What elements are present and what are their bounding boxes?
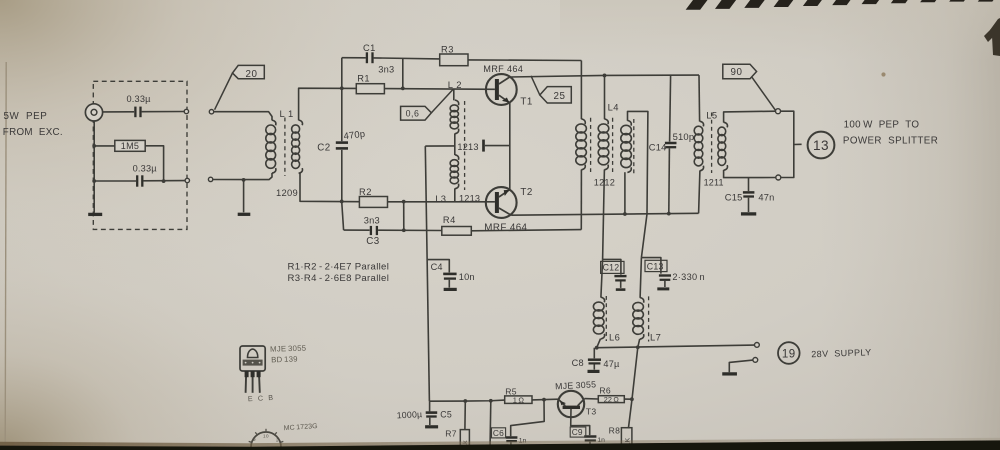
node dot bbox=[340, 86, 344, 90]
wire T3 to R6 bbox=[585, 398, 599, 400]
wire C1 to R3 bbox=[374, 58, 440, 59]
wire base line to L2 bbox=[453, 89, 455, 101]
resistor R1 bbox=[356, 73, 384, 93]
capacitor C2 bbox=[317, 128, 365, 154]
svg-text:C9: C9 bbox=[572, 427, 583, 437]
wire upper terminal to L1 bbox=[214, 112, 272, 121]
output terminal top bbox=[776, 109, 781, 114]
wire C-in to box edge bbox=[142, 111, 184, 113]
paper speck bbox=[881, 72, 885, 76]
label MRF464 bottom bbox=[484, 223, 527, 234]
label C6 value bbox=[519, 438, 527, 445]
svg-text:C5: C5 bbox=[440, 409, 452, 419]
capacitor C14 bbox=[665, 143, 677, 214]
svg-text:1211: 1211 bbox=[704, 178, 724, 188]
svg-text:T3: T3 bbox=[586, 407, 597, 417]
svg-text:R8: R8 bbox=[609, 425, 621, 435]
L5 secondary bbox=[718, 122, 728, 170]
svg-text:47µ: 47µ bbox=[603, 359, 620, 369]
label MJE3055 at T3 bbox=[555, 379, 597, 391]
svg-text:C14: C14 bbox=[649, 143, 667, 153]
L4 core a bbox=[590, 118, 592, 172]
wire C3 to R4 bbox=[378, 229, 442, 231]
flag 20 leader bbox=[215, 73, 233, 110]
winding c top bracket bbox=[628, 111, 648, 257]
svg-text:E C B: E C B bbox=[248, 393, 275, 403]
svg-text:C6: C6 bbox=[493, 428, 504, 438]
wire C3 line left bbox=[344, 229, 370, 231]
svg-text:C15: C15 bbox=[725, 193, 743, 203]
C8 stub bbox=[593, 348, 595, 359]
wire lower cap to terminal bbox=[143, 180, 184, 182]
label C13 box bbox=[645, 260, 667, 271]
label L3 bbox=[435, 193, 446, 204]
inductor L2 bbox=[450, 100, 459, 134]
svg-text:MRF 464: MRF 464 bbox=[483, 64, 523, 74]
capacitor C4 bbox=[443, 274, 457, 290]
label 10n bbox=[459, 272, 475, 282]
T3 base wire bbox=[571, 409, 590, 435]
svg-text:0.33µ: 0.33µ bbox=[127, 94, 152, 104]
svg-text:R2: R2 bbox=[359, 187, 372, 197]
left bus of input box bbox=[93, 121, 95, 213]
terminal lower bbox=[208, 177, 212, 181]
bypass plate bbox=[482, 140, 485, 152]
node dot bbox=[402, 228, 406, 232]
svg-text:C4: C4 bbox=[431, 262, 443, 272]
C7 feed wire bbox=[489, 401, 492, 450]
L4 winding a bbox=[576, 119, 587, 170]
supply return wire bbox=[729, 360, 753, 372]
transistor T2 (MRF464) bbox=[486, 187, 517, 218]
svg-text:1212: 1212 bbox=[594, 178, 615, 188]
ground stub wire bbox=[243, 180, 245, 212]
node dot bbox=[595, 346, 599, 350]
svg-text:0.33µ: 0.33µ bbox=[133, 163, 158, 173]
label C14 bbox=[649, 143, 667, 153]
svg-text:1213: 1213 bbox=[457, 142, 478, 152]
label L5 bbox=[706, 109, 717, 120]
resistor R2 bbox=[359, 187, 388, 208]
T1 emitter vertical bbox=[509, 103, 511, 189]
svg-text:R1: R1 bbox=[357, 73, 370, 83]
svg-text:R5: R5 bbox=[505, 386, 517, 396]
text POWER SPLITTER bbox=[843, 135, 938, 146]
wire to 1M5 bbox=[94, 145, 115, 147]
label MRF464 top bbox=[483, 64, 523, 74]
svg-text:0,6: 0,6 bbox=[406, 109, 420, 119]
bracket stub bbox=[794, 143, 802, 145]
flag 90 leader bbox=[752, 77, 776, 110]
node dot bbox=[402, 200, 406, 204]
svg-text:28V SUPPLY: 28V SUPPLY bbox=[811, 347, 872, 359]
supply terminal + bbox=[755, 343, 760, 348]
label C6 box bbox=[492, 428, 506, 438]
node dot bbox=[603, 74, 607, 78]
coax input connector J1 bbox=[85, 104, 102, 121]
svg-text:R3: R3 bbox=[441, 44, 454, 54]
svg-text:47n: 47n bbox=[758, 193, 774, 203]
note R1R2 parallel bbox=[288, 261, 390, 272]
L4 core b bbox=[612, 118, 614, 172]
svg-text:C1: C1 bbox=[363, 43, 376, 53]
wire 1M5 right + down bbox=[145, 146, 163, 181]
resistor R5 bbox=[505, 386, 532, 404]
capacitor C6 bbox=[506, 438, 518, 450]
capacitor C12 bbox=[614, 276, 626, 290]
svg-text:20: 20 bbox=[246, 69, 258, 80]
svg-text:R7: R7 bbox=[445, 429, 457, 439]
label R8 bbox=[609, 425, 621, 435]
capacitor 0.33u (bottom) bbox=[133, 163, 158, 186]
node dot bbox=[489, 399, 493, 403]
terminal (box top right) bbox=[184, 109, 188, 113]
circled 13 bbox=[808, 132, 835, 159]
wire to C12 bbox=[603, 259, 621, 274]
wire R4 to feedback winding bbox=[471, 230, 581, 231]
dashed enclosure box bbox=[93, 81, 187, 229]
svg-text:C13: C13 bbox=[647, 261, 664, 271]
node dot bbox=[92, 144, 96, 148]
package drawing MC1723 (TO-99) bbox=[249, 429, 284, 450]
L4 winding b riser bbox=[604, 75, 606, 119]
wire R5 to T3 bbox=[532, 398, 558, 401]
svg-text:1209: 1209 bbox=[276, 187, 298, 198]
output bracket bbox=[781, 111, 794, 177]
center tap wire bbox=[425, 145, 455, 147]
svg-text:10: 10 bbox=[263, 434, 269, 439]
svg-text:L7: L7 bbox=[650, 331, 661, 342]
L5 primary bbox=[694, 121, 703, 171]
C15 stub bbox=[748, 178, 750, 192]
flag 0,6 leader bbox=[431, 89, 453, 113]
bypass stub wire bbox=[485, 145, 510, 147]
T1 collector line bbox=[510, 75, 605, 77]
label T1 bbox=[520, 97, 532, 108]
node dot bbox=[542, 398, 546, 402]
flag 20 bbox=[233, 65, 265, 80]
resistor R8 bbox=[621, 428, 632, 449]
label C9 value bbox=[597, 437, 605, 444]
label C12 box bbox=[601, 261, 624, 273]
L5 sec top wire bbox=[724, 111, 776, 122]
bottom brown shadow band bbox=[0, 438, 1000, 450]
node dot bbox=[92, 179, 96, 183]
circled 19 bbox=[778, 342, 800, 364]
wire coax to C-in bbox=[103, 111, 135, 113]
label L6 bbox=[609, 331, 620, 342]
flag 0,6 bbox=[401, 106, 432, 120]
svg-text:2: 2 bbox=[276, 438, 279, 443]
svg-text:1M5: 1M5 bbox=[121, 141, 139, 151]
supply terminal - bbox=[753, 358, 758, 363]
capacitor C15 bbox=[741, 192, 756, 214]
capacitor C3 bbox=[364, 216, 380, 248]
label L1 bbox=[280, 108, 294, 119]
output terminal bottom bbox=[776, 175, 781, 180]
feedback winding riser bbox=[580, 61, 582, 120]
wire R1 to T1 base bbox=[384, 88, 495, 91]
C14 wire bbox=[670, 75, 671, 141]
svg-text:FROM EXC.: FROM EXC. bbox=[3, 127, 63, 138]
svg-text:1213: 1213 bbox=[459, 193, 480, 203]
wire L6 to supply bus bbox=[597, 339, 601, 348]
svg-text:L 2: L 2 bbox=[448, 79, 462, 90]
resistor R4 bbox=[442, 215, 472, 235]
wire R2line to C3 line bbox=[342, 201, 344, 230]
label 1000u bbox=[396, 409, 422, 420]
terminal upper bbox=[209, 110, 213, 114]
wire winding b down bbox=[603, 170, 605, 260]
flag 90 bbox=[723, 64, 757, 79]
L1 core bbox=[284, 118, 286, 177]
svg-text:100 W PEP TO: 100 W PEP TO bbox=[844, 120, 920, 131]
resistor R3 bbox=[440, 44, 468, 65]
label R7 bbox=[445, 429, 457, 439]
svg-text:C12: C12 bbox=[603, 263, 620, 273]
label C4 bbox=[431, 262, 443, 272]
transistor T3 (MJE3055) bbox=[558, 391, 585, 417]
wire L5 primary to bus bbox=[699, 171, 700, 214]
resistor 1M5 bbox=[115, 140, 145, 151]
svg-text:19: 19 bbox=[782, 348, 796, 360]
wire R6 to L7 line bbox=[624, 398, 632, 400]
svg-text:10n: 10n bbox=[459, 272, 475, 282]
wire R2 to T2 base bbox=[388, 201, 495, 203]
terminal (box bottom right) bbox=[185, 178, 189, 182]
svg-text:BD 139: BD 139 bbox=[271, 354, 298, 364]
label L4 bbox=[608, 101, 619, 112]
svg-text:R3·R4 - 2·6E8 Parallel: R3·R4 - 2·6E8 Parallel bbox=[288, 273, 390, 284]
wire to C13 bbox=[641, 258, 661, 274]
inductor L3 bbox=[450, 155, 459, 189]
pin labels E C B bbox=[248, 393, 275, 403]
svg-text:L6: L6 bbox=[609, 331, 620, 342]
label C8 bbox=[572, 358, 584, 368]
transformer L1 primary bbox=[266, 120, 276, 173]
wire to lower cap bbox=[94, 180, 136, 182]
svg-text:MRF 464: MRF 464 bbox=[484, 223, 527, 234]
label BD 139 bbox=[271, 354, 298, 364]
inductor L7 bbox=[633, 298, 644, 340]
label 1212 bbox=[594, 178, 615, 188]
node dot bbox=[667, 212, 671, 216]
wire C2-top to C1 bbox=[342, 57, 366, 59]
page left edge crease bbox=[5, 62, 6, 447]
label C5 bbox=[440, 409, 452, 419]
label 2-330n bbox=[672, 272, 705, 282]
dark numeral mark top right corner bbox=[984, 18, 1000, 56]
label MC 1723G bbox=[283, 423, 318, 432]
label 28V SUPPLY bbox=[811, 347, 872, 359]
label C15 bbox=[725, 193, 743, 203]
svg-text:C3: C3 bbox=[366, 236, 379, 247]
label 510p bbox=[673, 131, 695, 142]
node dot bbox=[636, 345, 640, 349]
wire L2-L3 junction bbox=[454, 134, 456, 156]
svg-text:T1: T1 bbox=[520, 97, 532, 108]
bias line left bbox=[429, 400, 504, 401]
flag 25 bbox=[540, 87, 572, 103]
wire R3 to feedback winding bbox=[468, 59, 581, 62]
L2-L3 core bbox=[464, 101, 466, 190]
svg-text:R6: R6 bbox=[599, 386, 611, 396]
svg-text:POWER SPLITTER: POWER SPLITTER bbox=[843, 135, 938, 146]
text 100W PEP TO bbox=[844, 120, 920, 131]
package drawing MJE3055/BD139 bbox=[240, 346, 265, 393]
wire L1 sec top riser bbox=[299, 88, 357, 120]
label L7 bbox=[650, 331, 661, 342]
bias feed vertical bbox=[425, 146, 429, 401]
wire C1-line corner down / C2 vertical bbox=[341, 58, 343, 142]
label C9 box bbox=[570, 427, 586, 437]
svg-text:25: 25 bbox=[554, 91, 566, 102]
node dot bbox=[162, 179, 166, 183]
svg-text:1 Ω: 1 Ω bbox=[513, 395, 525, 404]
capacitor C8 bbox=[588, 360, 602, 372]
L7 core bbox=[648, 296, 650, 341]
wire L1 sec bottom to R2 bbox=[300, 173, 359, 202]
svg-text:510p: 510p bbox=[673, 131, 695, 142]
node dot bbox=[463, 399, 467, 403]
T2 collector bus bbox=[511, 213, 698, 215]
L5 core bbox=[711, 113, 713, 174]
flag 25 leader bbox=[531, 76, 540, 95]
label 1213 lower bbox=[459, 193, 480, 203]
svg-text:5W PEP: 5W PEP bbox=[4, 111, 48, 122]
svg-text:L 1: L 1 bbox=[280, 108, 294, 119]
bottom black strip bbox=[0, 440, 1000, 450]
label T3 bbox=[586, 407, 597, 417]
L4 winding b bbox=[598, 119, 609, 170]
black striped book edge (top right) bbox=[686, 0, 994, 10]
L4 core c bbox=[633, 119, 635, 175]
R7 wire bbox=[464, 401, 466, 430]
capacitor C1 bbox=[363, 43, 394, 75]
svg-text:L5: L5 bbox=[706, 109, 717, 120]
svg-text:13: 13 bbox=[813, 138, 829, 153]
resistor R7 bbox=[460, 430, 469, 450]
inductor L6 bbox=[593, 297, 604, 339]
transistor T1 (MRF464) bbox=[486, 74, 517, 105]
label L2 bbox=[448, 79, 462, 90]
label 1211 bbox=[704, 178, 724, 188]
label 47n bbox=[758, 193, 774, 203]
node dot bbox=[401, 87, 405, 91]
label 1209 bbox=[276, 187, 298, 198]
svg-text:T2: T2 bbox=[520, 187, 532, 198]
note R3R4 parallel bbox=[288, 273, 390, 284]
svg-text:C2: C2 bbox=[317, 143, 330, 154]
wire lower terminal to L1 bbox=[213, 173, 272, 180]
svg-text:2·330 n: 2·330 n bbox=[672, 272, 705, 282]
svg-text:MJE 3055: MJE 3055 bbox=[270, 344, 307, 354]
resistor R6 bbox=[598, 386, 624, 404]
capacitor C9 bbox=[584, 437, 596, 450]
L6 core bbox=[605, 296, 607, 341]
label 1213 upper bbox=[457, 142, 478, 152]
L5 primary riser bbox=[698, 75, 701, 121]
wire L4b to L6 bbox=[601, 259, 603, 297]
wire winding c bottom to bus bbox=[624, 172, 626, 214]
ground (L1) bbox=[238, 213, 251, 216]
collector line to L5 bbox=[605, 74, 700, 76]
svg-text:22 Ω: 22 Ω bbox=[604, 395, 620, 404]
svg-text:L4: L4 bbox=[608, 101, 619, 112]
node dot bbox=[630, 397, 634, 401]
R8 wire bbox=[628, 399, 632, 428]
svg-text:1000µ: 1000µ bbox=[396, 409, 422, 420]
28V supply bus bbox=[597, 345, 755, 348]
capacitor C5 1000u bbox=[425, 401, 438, 427]
svg-text:C8: C8 bbox=[572, 358, 584, 368]
svg-text:3n3: 3n3 bbox=[378, 65, 394, 75]
node dot bbox=[623, 212, 627, 216]
C6 bracket bbox=[511, 400, 545, 437]
svg-text:90: 90 bbox=[731, 67, 743, 78]
ground (supply) bbox=[722, 372, 737, 375]
text 5W PEP FROM EXC. bbox=[3, 111, 63, 138]
L4 winding c bbox=[621, 120, 632, 172]
wire C13corner to L7 bbox=[640, 258, 641, 298]
wire winding a down to R4 line bbox=[580, 170, 582, 230]
svg-text:R1·R2 - 2·4E7 Parallel: R1·R2 - 2·4E7 Parallel bbox=[288, 261, 390, 272]
stub base line to C3 line bbox=[403, 202, 405, 231]
label MJE 3055 bbox=[270, 344, 307, 354]
C4 branch bbox=[428, 260, 450, 273]
svg-text:9: 9 bbox=[253, 437, 256, 442]
capacitor C13 bbox=[657, 276, 671, 289]
node dot bbox=[340, 200, 344, 204]
label 47u bbox=[603, 359, 620, 369]
node dot bbox=[242, 178, 246, 182]
label T2 bbox=[520, 187, 532, 198]
stub top line to base line bbox=[402, 58, 404, 88]
wire L3 to base line bbox=[454, 189, 456, 202]
wire C2 down to R2 line bbox=[341, 150, 343, 202]
transformer L1 secondary bbox=[292, 120, 303, 173]
svg-text:R4: R4 bbox=[443, 215, 456, 225]
capacitor 0.33u (top) bbox=[127, 94, 152, 117]
wire L7 down to R6 node bbox=[632, 339, 640, 399]
svg-text:L3: L3 bbox=[435, 193, 446, 204]
ground (input) bbox=[88, 213, 102, 216]
svg-text:3n3: 3n3 bbox=[364, 216, 380, 226]
L5 sec bottom wire bbox=[724, 170, 776, 178]
